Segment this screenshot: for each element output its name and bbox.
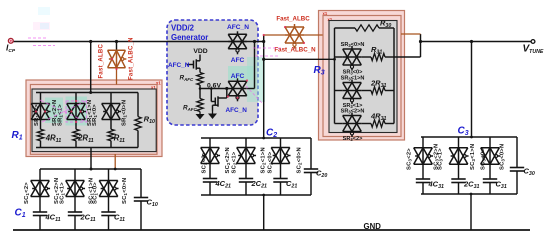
resistor 2R11 (75, 120, 77, 130)
R1 top rail (36, 92, 138, 94)
C3 bottom rail (421, 193, 517, 195)
capacitor 2C21 (245, 164, 247, 179)
R1 bank inner replica box (30, 85, 157, 155)
svg-text:Fast_ALBC: Fast_ALBC (99, 43, 105, 78)
svg-text:AFC: AFC (231, 57, 245, 64)
svg-text:AFC_N: AFC_N (227, 24, 249, 31)
editor artifact red dots (35, 110, 37, 112)
svg-text:SC2<1>N: SC2<1>N (261, 147, 267, 173)
svg-text:SR3<0>N: SR3<0>N (341, 42, 365, 48)
svg-text:AFC_N: AFC_N (168, 62, 190, 69)
transmission gate SR1<2> (40, 93, 42, 104)
svg-text:SC2<0>: SC2<0> (268, 151, 274, 173)
stray selection marks (28, 37, 46, 39)
svg-text:SC2<2>: SC2<2> (202, 151, 208, 173)
transmission gate AFC precharge (228, 80, 247, 82)
svg-text:VDD/2: VDD/2 (171, 24, 195, 33)
switch SC3<2> (422, 137, 424, 148)
svg-text:0.6V: 0.6V (207, 83, 221, 90)
switch SC3<1> (458, 137, 460, 148)
capacitor C31 (489, 164, 491, 179)
wire Fast TG to replica box (116, 68, 118, 85)
C2 bottom rail (201, 194, 311, 196)
pmos M1 (187, 64, 194, 66)
svg-text:SR1<1>: SR1<1> (58, 104, 64, 126)
wire main to Fast TG left (116, 42, 118, 51)
svg-text:AFC_N: AFC_N (226, 107, 248, 114)
wire node A to R3 input (264, 58, 335, 60)
svg-text:SC2<1>: SC2<1> (232, 151, 238, 173)
svg-text:SC3<0>N: SC3<0>N (500, 144, 506, 170)
resistor R30 (335, 27, 356, 29)
terminal ICP (8, 38, 13, 43)
svg-text:Fast_ALBC_N: Fast_ALBC_N (129, 37, 135, 80)
svg-text:GND: GND (364, 222, 382, 231)
resistor 2R31 row1 (361, 90, 371, 92)
C1 top rail (40, 168, 141, 170)
C3 top rail (421, 136, 517, 138)
svg-text:SC3<0>: SC3<0> (481, 148, 487, 170)
C2 ground stub (263, 195, 265, 230)
R1 replica output wire (114, 154, 116, 169)
resistor 4R31 row2 (361, 123, 371, 125)
transmission gate SR3<2> (335, 123, 343, 125)
svg-text:SC3<2>: SC3<2> (407, 148, 413, 170)
capacitor 2C11 (74, 197, 76, 213)
C3 ground stub (470, 194, 472, 230)
R3 left rail (334, 28, 336, 124)
transmission gate AFC_N on main wire (228, 33, 247, 35)
switch SC1<1> (74, 169, 76, 181)
capacitor 2C31 (458, 164, 460, 179)
capacitor C10 (140, 169, 142, 198)
svg-text:SC2<2>N: SC2<2>N (225, 147, 231, 173)
R1 bank gray box (32, 89, 156, 152)
R1 feed wire direct (90, 42, 92, 93)
R1 bottom rail (36, 147, 138, 149)
ground below nmos (212, 111, 214, 114)
svg-text:SR3<1>N: SR3<1>N (341, 76, 365, 82)
resistor 4R11 (40, 120, 42, 130)
svg-text:AFC: AFC (231, 73, 245, 80)
R3 output wire (394, 56, 421, 58)
capacitor 4C21 (209, 164, 211, 179)
nmos M2 (210, 89, 212, 102)
resistor RAFC lower (197, 99, 203, 112)
svg-text:SR3<2>N: SR3<2>N (341, 109, 365, 115)
svg-text:VDD: VDD (193, 48, 207, 55)
capacitor 4C11 (39, 197, 41, 213)
resistor RAFC upper (197, 73, 203, 86)
capacitor C11 (108, 197, 110, 213)
transmission gate SR3<1> (335, 90, 343, 92)
svg-text:Fast_ALBC: Fast_ALBC (276, 16, 310, 23)
svg-text:SR1<0>: SR1<0> (92, 104, 98, 126)
transmission gate SR3<0> (335, 56, 343, 58)
transmission gate Fast_ALBC left (108, 49, 126, 51)
svg-text:SC1<0>N: SC1<0>N (122, 178, 128, 204)
C3 feed wire (471, 42, 473, 138)
switch SC2<1> (245, 138, 247, 148)
svg-text:SC2<0>N: SC2<0>N (297, 147, 303, 173)
wire TG2 output to main wire (247, 88, 255, 90)
switch SC2<2> (209, 138, 211, 148)
switch SC1<0> (108, 169, 110, 181)
capacitor C30 (516, 137, 518, 168)
selection highlight patches (45, 98, 63, 124)
svg-text:SC3<1>N: SC3<1>N (470, 144, 476, 170)
resistor R10 branch (137, 93, 139, 117)
ground below RAFC (199, 112, 201, 115)
R3 bank outer replica box (319, 11, 405, 141)
svg-text:SR3<2>: SR3<2> (343, 136, 364, 142)
capacitor C20 (310, 138, 312, 169)
R3 right rail (393, 28, 395, 124)
svg-text:SR1<0>N: SR1<0>N (122, 100, 128, 126)
svg-text:SC1<0>: SC1<0> (93, 182, 99, 204)
terminal VTUNE (531, 40, 535, 44)
svg-text:SR1<2>: SR1<2> (34, 104, 40, 126)
GND rail (13, 229, 530, 231)
corner smudges (38, 7, 50, 15)
wire node B to VTUNE (421, 41, 534, 43)
wire node A vertical to C2 (263, 35, 265, 138)
wire 0.6V node (199, 85, 201, 99)
R3 bank gray box (329, 21, 397, 133)
C2 top rail (201, 137, 311, 139)
capacitor 4C31 (422, 164, 424, 179)
VDD/2 generator box (167, 20, 258, 125)
wire Fast TG right to replica box (304, 34, 323, 36)
R1 bank outer replica box (26, 80, 162, 157)
wire ICP to node A (main top rail) (13, 41, 264, 43)
svg-text:SC3<1>: SC3<1> (438, 148, 444, 170)
switch SC3<0> (489, 137, 491, 148)
switch SC2<0> (280, 138, 282, 148)
resistor R11 (110, 120, 112, 130)
resistor R31 row0 (361, 56, 371, 58)
capacitor C21 (280, 164, 282, 179)
transmission gate SR1<1> (75, 93, 77, 104)
svg-text:SC1<2>: SC1<2> (24, 182, 30, 204)
transmission gate SR1<0> (110, 93, 112, 104)
R1 output wire to C1 (90, 148, 92, 170)
R3 bank inner replica box (323, 16, 401, 137)
svg-text:SC1<1>: SC1<1> (60, 182, 66, 204)
switch SC1<2> (39, 169, 41, 181)
transmission gate Fast_ALBC right (285, 26, 304, 28)
wire node A to Fast TG right (264, 34, 285, 36)
